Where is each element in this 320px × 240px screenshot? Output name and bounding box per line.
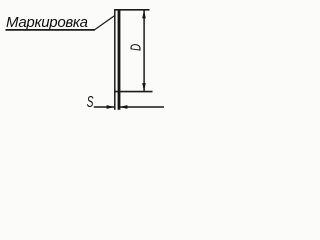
dimension S right arrowhead xyxy=(120,105,128,109)
leader line xyxy=(95,16,115,30)
svg-text:D: D xyxy=(127,44,143,51)
dimension line S left segment xyxy=(94,106,115,108)
part left edge / extension line xyxy=(114,9,116,110)
svg-text:S: S xyxy=(87,93,94,111)
part top edge + extension line for D xyxy=(114,9,149,11)
leader underline xyxy=(6,29,95,31)
part bottom edge + extension line for D xyxy=(114,91,152,93)
svg-text:Маркировка: Маркировка xyxy=(6,14,88,31)
dimension D bottom arrowhead xyxy=(142,83,146,91)
dimension S left arrowhead xyxy=(107,105,115,109)
dimension D top arrowhead xyxy=(142,10,146,18)
dimension line D xyxy=(143,11,145,92)
part right edge (thick) / extension line xyxy=(118,9,121,110)
dimension line S right segment xyxy=(120,106,164,108)
